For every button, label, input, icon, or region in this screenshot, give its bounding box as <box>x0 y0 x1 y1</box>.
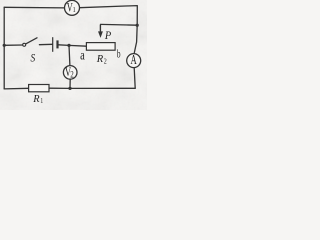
wire: V2 down to bottom wire <box>69 79 71 88</box>
node: bottom wire / V2 junction <box>68 87 71 90</box>
paper background <box>0 0 147 110</box>
svg-text:2: 2 <box>70 69 74 79</box>
node: battery/rheostat/V2 junction <box>67 44 70 47</box>
battery short thick plate <box>56 40 58 48</box>
wire: right node down to ammeter <box>134 25 137 54</box>
svg-text:S: S <box>31 53 36 65</box>
switch S pivot <box>23 43 26 46</box>
wire top: corner to voltmeter V1 <box>4 6 64 9</box>
node: left wire / switch junction <box>3 44 6 47</box>
svg-text:a: a <box>80 47 85 63</box>
label R2 <box>96 54 108 65</box>
label R1 <box>32 94 43 105</box>
wire: right node to wiper corner <box>100 23 137 26</box>
voltmeter V1 <box>65 0 80 15</box>
switch S lever <box>26 38 37 44</box>
svg-text:b: b <box>117 48 121 61</box>
ammeter A <box>127 53 141 68</box>
svg-text:P: P <box>104 30 112 43</box>
wire left vertical (top-left corner down to bottom-left corner) <box>3 7 5 89</box>
wire top: V1 to top-right corner and down to node <box>80 6 138 26</box>
rheostat R2 body <box>86 43 115 51</box>
node: right wire / wiper junction <box>136 24 139 27</box>
wire: switch node to switch pivot <box>4 44 22 46</box>
battery long plate <box>52 37 54 52</box>
resistor R1 body <box>29 85 49 92</box>
svg-text:A: A <box>131 53 138 67</box>
voltmeter V2 <box>63 65 77 79</box>
wire bottom: R1 to bottom-left corner <box>4 87 28 90</box>
wire: battery to node, into rheostat R2 <box>58 45 86 46</box>
wire bottom: right corner to V2 node to R1 <box>49 87 135 89</box>
svg-text:1: 1 <box>73 7 76 15</box>
svg-text:1: 1 <box>40 97 43 105</box>
svg-text:R: R <box>32 94 40 105</box>
svg-text:R: R <box>96 54 104 65</box>
wire: node down to voltmeter V2 <box>68 45 71 65</box>
wire: switch contact to battery <box>39 43 52 45</box>
wire: ammeter down to bottom-right corner <box>134 68 135 89</box>
rheostat R2 wiper arrow <box>98 25 103 38</box>
